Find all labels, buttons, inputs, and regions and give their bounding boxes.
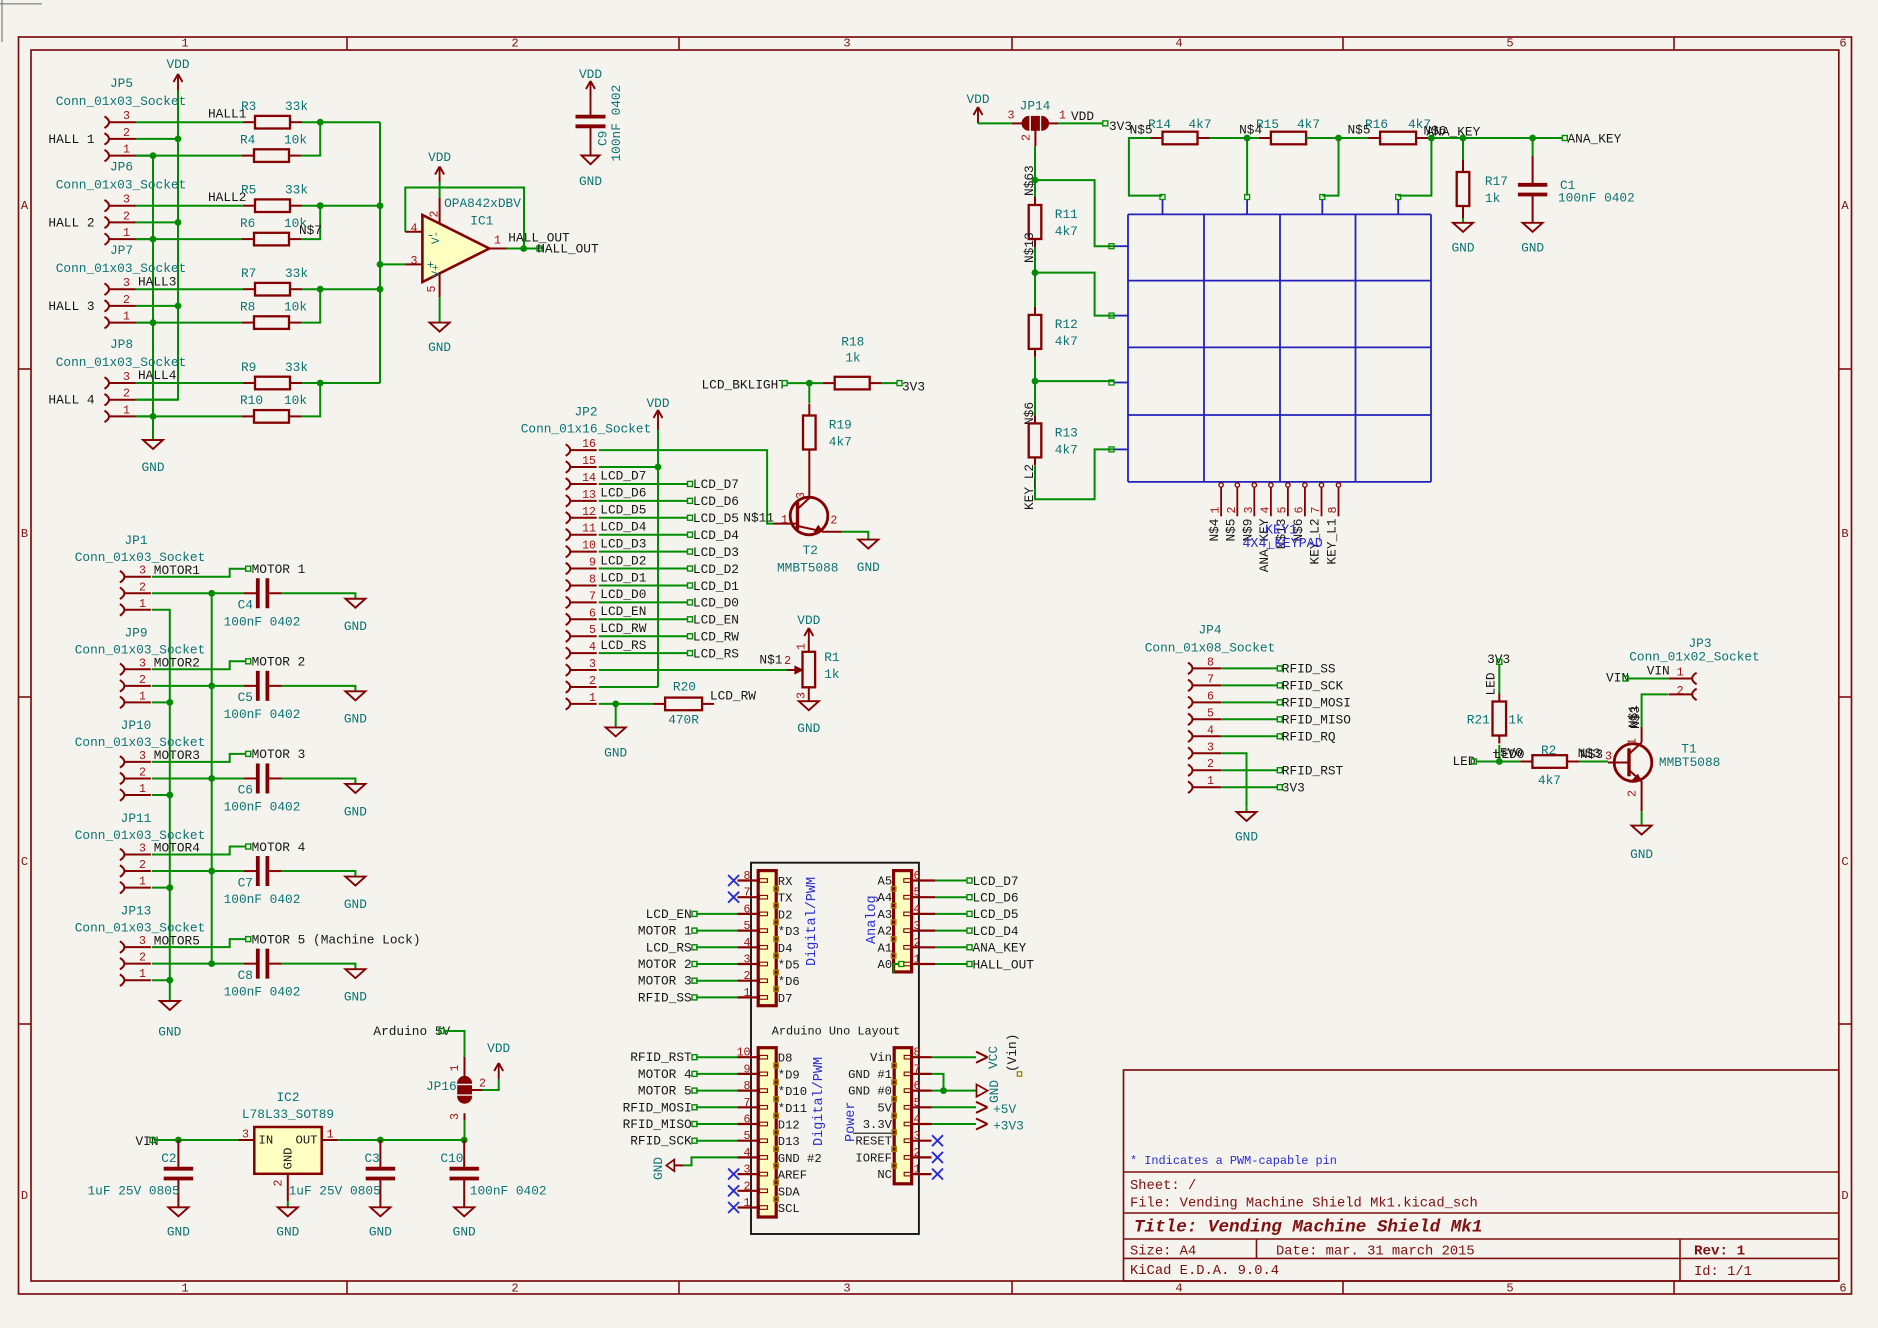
svg-text:10k: 10k: [284, 393, 307, 408]
svg-text:7: 7: [744, 1097, 751, 1110]
svg-text:*D5: *D5: [778, 959, 800, 973]
svg-text:GND: GND: [167, 1225, 190, 1240]
svg-text:100nF 0402: 100nF 0402: [224, 707, 301, 722]
svg-text:C7: C7: [238, 875, 253, 890]
svg-text:IC1: IC1: [470, 213, 493, 228]
svg-text:4k7: 4k7: [829, 435, 852, 450]
svg-text:1: 1: [1210, 507, 1223, 514]
svg-text:2: 2: [123, 127, 130, 140]
svg-text:MOTOR5: MOTOR5: [154, 933, 200, 948]
svg-text:A5: A5: [878, 875, 893, 889]
svg-text:R17: R17: [1485, 174, 1508, 189]
svg-text:1: 1: [449, 1065, 462, 1072]
svg-text:MOTOR3: MOTOR3: [154, 748, 200, 763]
svg-text:N$3: N$3: [1628, 706, 1643, 729]
svg-text:B: B: [1841, 527, 1848, 541]
svg-text:LED0: LED0: [1494, 747, 1525, 762]
svg-text:2: 2: [123, 388, 130, 401]
svg-text:9: 9: [744, 1063, 751, 1076]
svg-text:IOREF: IOREF: [855, 1151, 892, 1165]
svg-text:JP6: JP6: [110, 160, 133, 175]
svg-text:N$1: N$1: [759, 653, 782, 668]
svg-text:4: 4: [1259, 507, 1272, 514]
svg-text:10: 10: [582, 540, 596, 553]
svg-text:4: 4: [1175, 1282, 1182, 1296]
svg-text:1: 1: [123, 311, 130, 324]
svg-text:C: C: [21, 855, 28, 869]
svg-text:N$5: N$5: [1223, 519, 1238, 542]
svg-text:IC2: IC2: [276, 1090, 299, 1105]
svg-text:3: 3: [139, 750, 146, 763]
svg-text:B: B: [21, 527, 28, 541]
svg-text:N$5: N$5: [1348, 123, 1371, 138]
svg-text:RFID_MOSI: RFID_MOSI: [623, 1100, 692, 1115]
svg-text:1k: 1k: [1508, 713, 1524, 728]
svg-text:GND: GND: [369, 1225, 392, 1240]
svg-text:LCD_RW: LCD_RW: [710, 689, 756, 704]
svg-text:1: 1: [744, 987, 751, 1000]
svg-text:6: 6: [1293, 507, 1306, 514]
svg-text:Arduino Uno Layout: Arduino Uno Layout: [772, 1025, 900, 1039]
svg-text:LCD_RS: LCD_RS: [693, 646, 739, 661]
svg-text:1k: 1k: [1485, 191, 1501, 206]
svg-text:12: 12: [582, 506, 596, 519]
svg-text:VDD: VDD: [966, 92, 989, 107]
svg-text:1: 1: [1677, 666, 1684, 679]
svg-text:-: -: [427, 228, 435, 243]
svg-text:LCD_D0: LCD_D0: [693, 596, 739, 611]
svg-text:2: 2: [429, 211, 442, 218]
svg-text:Digital/PWM: Digital/PWM: [805, 877, 820, 966]
svg-text:1: 1: [494, 235, 501, 248]
svg-text:LCD_EN: LCD_EN: [600, 604, 646, 619]
svg-text:GND #0: GND #0: [848, 1085, 892, 1099]
svg-text:LCD_RW: LCD_RW: [600, 621, 646, 636]
svg-text:5: 5: [1506, 1282, 1513, 1296]
svg-text:D4: D4: [778, 942, 793, 956]
svg-text:3: 3: [843, 1282, 850, 1296]
svg-text:D7: D7: [778, 992, 793, 1006]
svg-text:SDA: SDA: [778, 1185, 801, 1199]
svg-text:100nF 0402: 100nF 0402: [470, 1184, 547, 1199]
svg-text:RFID_RQ: RFID_RQ: [1282, 730, 1336, 745]
svg-text:3: 3: [843, 37, 850, 51]
svg-text:4k7: 4k7: [1189, 117, 1212, 132]
svg-text:LCD_D4: LCD_D4: [600, 520, 646, 535]
svg-text:2: 2: [139, 859, 146, 872]
svg-text:VDD: VDD: [646, 396, 669, 411]
svg-text:LCD_D7: LCD_D7: [600, 469, 646, 484]
svg-text:GND: GND: [1451, 240, 1474, 255]
svg-text:GND #1: GND #1: [848, 1068, 892, 1082]
svg-text:3: 3: [914, 1130, 921, 1143]
svg-text:4: 4: [411, 222, 418, 235]
svg-text:N$4: N$4: [1239, 123, 1262, 138]
svg-text:C: C: [1841, 855, 1848, 869]
svg-text:LCD_D2: LCD_D2: [600, 553, 646, 568]
svg-text:3.3V: 3.3V: [863, 1118, 893, 1132]
svg-text:MOTOR 1: MOTOR 1: [252, 562, 306, 577]
svg-text:*D10: *D10: [778, 1085, 807, 1099]
svg-text:2: 2: [1021, 134, 1034, 141]
svg-text:8: 8: [744, 1080, 751, 1093]
svg-text:JP11: JP11: [121, 811, 152, 826]
svg-text:4: 4: [589, 641, 596, 654]
svg-text:1: 1: [139, 690, 146, 703]
svg-text:Rev: 1: Rev: 1: [1694, 1244, 1745, 1260]
svg-text:GND: GND: [282, 1148, 296, 1170]
svg-text:C2: C2: [161, 1151, 176, 1166]
svg-text:LCD_D7: LCD_D7: [973, 874, 1019, 889]
svg-text:RFID_MISO: RFID_MISO: [1282, 713, 1351, 728]
svg-text:D: D: [1841, 1189, 1848, 1203]
svg-text:1k: 1k: [824, 667, 840, 682]
svg-text:N$5: N$5: [1130, 123, 1153, 138]
svg-text:*D6: *D6: [778, 975, 800, 989]
svg-text:C4: C4: [238, 597, 254, 612]
svg-text:VIN: VIN: [1647, 664, 1670, 679]
svg-text:VDD: VDD: [579, 67, 602, 82]
svg-text:ANA_KEY: ANA_KEY: [1427, 125, 1481, 140]
svg-text:7: 7: [589, 590, 596, 603]
svg-text:GND #2: GND #2: [778, 1152, 822, 1166]
svg-text:IN: IN: [259, 1134, 274, 1148]
svg-text:ANA_KEY: ANA_KEY: [973, 941, 1027, 956]
svg-text:5: 5: [744, 1130, 751, 1143]
svg-text:N$4: N$4: [1207, 518, 1222, 541]
svg-text:1: 1: [123, 404, 130, 417]
svg-text:Digital/PWM: Digital/PWM: [812, 1057, 827, 1146]
svg-text:AREF: AREF: [778, 1169, 807, 1183]
svg-text:3: 3: [1243, 507, 1256, 514]
svg-text:1: 1: [139, 968, 146, 981]
svg-text:Conn_01x03_Socket: Conn_01x03_Socket: [56, 94, 187, 109]
svg-text:GND: GND: [344, 989, 367, 1004]
svg-text:15: 15: [582, 455, 596, 468]
svg-text:GND: GND: [857, 560, 880, 575]
svg-text:8: 8: [589, 573, 596, 586]
svg-text:*D3: *D3: [778, 925, 800, 939]
svg-text:1: 1: [795, 643, 808, 650]
svg-text:6: 6: [744, 1114, 751, 1127]
svg-text:LCD_BKLIGHT: LCD_BKLIGHT: [702, 377, 787, 392]
svg-text:1: 1: [1207, 775, 1214, 788]
svg-text:4: 4: [914, 1114, 921, 1127]
svg-text:VDD: VDD: [1071, 109, 1094, 124]
svg-text:VDD: VDD: [487, 1041, 510, 1056]
svg-text:LCD_D2: LCD_D2: [693, 562, 739, 577]
svg-text:VDD: VDD: [428, 150, 451, 165]
svg-text:1: 1: [123, 144, 130, 157]
svg-text:6: 6: [589, 607, 596, 620]
svg-text:LCD_D0: LCD_D0: [600, 587, 646, 602]
svg-text:1: 1: [744, 1197, 751, 1210]
svg-text:1: 1: [781, 514, 788, 527]
svg-text:R19: R19: [829, 418, 852, 433]
svg-text:2: 2: [830, 514, 837, 527]
svg-text:JP2: JP2: [574, 405, 597, 420]
svg-text:3: 3: [1207, 741, 1214, 754]
svg-text:1: 1: [139, 598, 146, 611]
svg-text:2: 2: [1226, 507, 1239, 514]
svg-text:LCD_D4: LCD_D4: [693, 528, 739, 543]
svg-text:A: A: [1841, 199, 1849, 213]
svg-text:3V3: 3V3: [1109, 119, 1132, 134]
svg-text:3: 3: [411, 255, 418, 268]
svg-text:JP16: JP16: [426, 1079, 457, 1094]
svg-text:MOTOR 2: MOTOR 2: [638, 957, 692, 972]
svg-text:R6: R6: [240, 216, 255, 231]
svg-text:6: 6: [1839, 1282, 1846, 1296]
svg-text:3: 3: [139, 843, 146, 856]
svg-text:2: 2: [914, 1147, 921, 1160]
svg-text:3: 3: [139, 935, 146, 948]
svg-text:LCD_D6: LCD_D6: [973, 891, 1019, 906]
svg-text:2: 2: [744, 1180, 751, 1193]
svg-text:LCD_D5: LCD_D5: [973, 907, 1019, 922]
svg-text:1: 1: [139, 876, 146, 889]
svg-text:7: 7: [1207, 673, 1214, 686]
svg-text:L78L33_SOT89: L78L33_SOT89: [242, 1107, 334, 1122]
svg-text:3: 3: [242, 1128, 249, 1141]
svg-text:9: 9: [589, 557, 596, 570]
svg-text:GND: GND: [141, 460, 164, 475]
svg-text:VDD: VDD: [166, 57, 189, 72]
svg-text:3: 3: [123, 110, 130, 123]
svg-text:2: 2: [123, 294, 130, 307]
svg-text:11: 11: [582, 523, 596, 536]
svg-text:R21: R21: [1467, 713, 1490, 728]
svg-text:D2: D2: [778, 908, 793, 922]
svg-text:7: 7: [914, 1063, 921, 1076]
svg-text:6: 6: [914, 870, 921, 883]
svg-text:4: 4: [744, 937, 751, 950]
svg-text:6: 6: [1839, 37, 1846, 51]
svg-text:1: 1: [123, 227, 130, 240]
svg-text:LED: LED: [1453, 754, 1476, 769]
svg-text:2: 2: [1677, 685, 1684, 698]
svg-text:3: 3: [1008, 110, 1015, 123]
svg-text:2: 2: [914, 937, 921, 950]
svg-text:GND: GND: [797, 721, 820, 736]
svg-text:1: 1: [914, 954, 921, 967]
svg-text:GND: GND: [344, 804, 367, 819]
svg-text:(Vin): (Vin): [1005, 1034, 1020, 1072]
svg-text:1: 1: [914, 1164, 921, 1177]
svg-text:2: 2: [784, 655, 791, 668]
svg-text:R13: R13: [1055, 425, 1078, 440]
svg-text:LCD_D6: LCD_D6: [600, 486, 646, 501]
svg-text:C5: C5: [238, 690, 253, 705]
svg-text:6: 6: [1207, 690, 1214, 703]
svg-text:4k7: 4k7: [1055, 334, 1078, 349]
svg-text:C6: C6: [238, 783, 253, 798]
svg-text:GND: GND: [1235, 830, 1258, 845]
svg-text:8: 8: [1327, 507, 1340, 514]
svg-text:*D9: *D9: [778, 1068, 800, 1082]
svg-text:N$7: N$7: [299, 223, 322, 238]
svg-text:JP9: JP9: [124, 626, 147, 641]
svg-text:1uF 25V 0805: 1uF 25V 0805: [88, 1184, 180, 1199]
svg-text:100nF 0402: 100nF 0402: [1558, 191, 1635, 206]
svg-text:4: 4: [744, 1147, 751, 1160]
svg-text:JP8: JP8: [110, 337, 133, 352]
svg-text:LCD_D5: LCD_D5: [600, 503, 646, 518]
svg-text:GND: GND: [276, 1225, 299, 1240]
svg-text:6: 6: [914, 1080, 921, 1093]
svg-text:8: 8: [744, 870, 751, 883]
svg-text:VCC: VCC: [986, 1046, 1001, 1069]
svg-text:File: Vending Machine Shield M: File: Vending Machine Shield Mk1.kicad_s…: [1130, 1196, 1478, 1212]
svg-text:Title: Vending Machine Shield: Title: Vending Machine Shield Mk1: [1134, 1218, 1482, 1238]
svg-text:* Indicates a PWM-capable pin: * Indicates a PWM-capable pin: [1130, 1154, 1337, 1168]
svg-text:D12: D12: [778, 1119, 800, 1133]
svg-text:RFID_SS: RFID_SS: [638, 990, 692, 1005]
svg-text:LCD_RS: LCD_RS: [646, 940, 692, 955]
svg-text:3: 3: [449, 1113, 462, 1120]
svg-text:R5: R5: [241, 183, 256, 198]
svg-text:R3: R3: [241, 99, 256, 114]
svg-text:HALL_OUT: HALL_OUT: [973, 957, 1035, 972]
svg-text:100nF 0402: 100nF 0402: [224, 799, 301, 814]
svg-text:100nF 0402: 100nF 0402: [224, 985, 301, 1000]
svg-text:16: 16: [582, 438, 596, 451]
svg-text:GND: GND: [453, 1225, 476, 1240]
svg-text:KEY_L2: KEY_L2: [1022, 464, 1037, 510]
svg-text:R1: R1: [824, 650, 840, 665]
svg-text:RESET: RESET: [855, 1135, 892, 1149]
svg-text:MOTOR1: MOTOR1: [154, 563, 200, 578]
svg-text:6: 6: [744, 903, 751, 916]
svg-text:10k: 10k: [284, 132, 307, 147]
svg-text:KiCad E.D.A. 9.0.4: KiCad E.D.A. 9.0.4: [1130, 1263, 1279, 1279]
svg-text:N$13: N$13: [1022, 232, 1037, 263]
svg-text:5: 5: [426, 286, 439, 293]
svg-text:5: 5: [914, 887, 921, 900]
svg-text:100nF 0402: 100nF 0402: [224, 614, 301, 629]
svg-text:10k: 10k: [284, 299, 307, 314]
svg-text:3: 3: [139, 657, 146, 670]
svg-text:33k: 33k: [285, 266, 308, 281]
svg-text:Conn_01x16_Socket: Conn_01x16_Socket: [521, 422, 652, 437]
svg-text:MOTOR 3: MOTOR 3: [638, 974, 692, 989]
svg-text:MMBT5088: MMBT5088: [777, 561, 838, 576]
svg-text:ANA_KEY: ANA_KEY: [1568, 131, 1622, 146]
svg-text:4X4_KEYPAD: 4X4_KEYPAD: [1242, 537, 1322, 552]
svg-text:33k: 33k: [285, 360, 308, 375]
svg-text:D13: D13: [778, 1135, 800, 1149]
svg-text:R2: R2: [1541, 743, 1556, 758]
svg-text:N$63: N$63: [1022, 165, 1037, 196]
svg-text:HALL3: HALL3: [138, 274, 176, 289]
svg-text:3V3: 3V3: [1282, 780, 1305, 795]
svg-text:LCD_EN: LCD_EN: [646, 907, 692, 922]
svg-text:LCD_D3: LCD_D3: [693, 545, 739, 560]
svg-text:R20: R20: [673, 679, 696, 694]
svg-text:GND: GND: [1630, 847, 1653, 862]
svg-text:RFID_SS: RFID_SS: [1282, 662, 1336, 677]
svg-text:KEY_L1: KEY_L1: [1325, 518, 1340, 564]
svg-text:4k7: 4k7: [1297, 117, 1320, 132]
svg-text:MOTOR 1: MOTOR 1: [638, 924, 692, 939]
svg-text:4: 4: [1175, 37, 1182, 51]
svg-text:8: 8: [1207, 656, 1214, 669]
svg-text:5: 5: [744, 920, 751, 933]
svg-text:LCD_D3: LCD_D3: [600, 536, 646, 551]
svg-text:LCD_RS: LCD_RS: [600, 638, 646, 653]
svg-text:5: 5: [1276, 507, 1289, 514]
svg-text:GND: GND: [428, 340, 451, 355]
svg-text:MMBT5088: MMBT5088: [1659, 755, 1720, 770]
svg-text:T2: T2: [803, 543, 818, 558]
svg-text:4k7: 4k7: [1538, 773, 1561, 788]
svg-text:100nF 0402: 100nF 0402: [224, 892, 301, 907]
svg-text:7: 7: [744, 887, 751, 900]
svg-text:MOTOR2: MOTOR2: [154, 656, 200, 671]
svg-text:GND: GND: [344, 897, 367, 912]
svg-text:LCD_D7: LCD_D7: [693, 477, 739, 492]
svg-text:7: 7: [1310, 507, 1323, 514]
svg-text:HALL 4: HALL 4: [48, 393, 94, 408]
svg-text:C8: C8: [238, 968, 253, 983]
svg-text:Conn_01x08_Socket: Conn_01x08_Socket: [1145, 641, 1276, 656]
svg-text:2: 2: [589, 675, 596, 688]
svg-text:2: 2: [139, 766, 146, 779]
svg-text:NC: NC: [877, 1168, 892, 1182]
svg-text:33k: 33k: [285, 183, 308, 198]
svg-text:R11: R11: [1055, 207, 1078, 222]
svg-text:MOTOR 4: MOTOR 4: [252, 840, 306, 855]
svg-text:5: 5: [914, 1097, 921, 1110]
svg-text:LED: LED: [1484, 672, 1499, 695]
svg-text:MOTOR 5 (Machine Lock): MOTOR 5 (Machine Lock): [252, 932, 421, 947]
svg-text:LCD_EN: LCD_EN: [693, 613, 739, 628]
svg-text:VDD: VDD: [797, 613, 820, 628]
svg-text:4k7: 4k7: [1055, 224, 1078, 239]
svg-text:Date: mar. 31 march 2015: Date: mar. 31 march 2015: [1276, 1244, 1475, 1260]
svg-text:GND: GND: [651, 1157, 666, 1180]
svg-text:MOTOR 3: MOTOR 3: [252, 747, 306, 762]
svg-text:4k7: 4k7: [1055, 442, 1078, 457]
svg-text:3: 3: [123, 371, 130, 384]
svg-text:MOTOR 2: MOTOR 2: [252, 655, 306, 670]
svg-text:GND: GND: [604, 746, 627, 761]
svg-text:5: 5: [1207, 707, 1214, 720]
svg-text:*D11: *D11: [778, 1102, 807, 1116]
svg-text:2: 2: [139, 952, 146, 965]
svg-text:5: 5: [589, 624, 596, 637]
svg-text:Conn_01x03_Socket: Conn_01x03_Socket: [56, 178, 187, 193]
svg-text:+5V: +5V: [993, 1102, 1016, 1117]
svg-text:HALL_OUT: HALL_OUT: [537, 241, 599, 256]
svg-text:Size: A4: Size: A4: [1130, 1244, 1196, 1260]
svg-text:1: 1: [589, 692, 596, 705]
svg-text:3: 3: [795, 692, 808, 699]
svg-text:SCL: SCL: [778, 1202, 800, 1216]
svg-text:LCD_RW: LCD_RW: [693, 630, 739, 645]
svg-text:A0: A0: [878, 958, 893, 972]
svg-text:GND: GND: [344, 712, 367, 727]
svg-text:Vin: Vin: [870, 1051, 892, 1065]
svg-text:Power: Power: [844, 1101, 859, 1142]
svg-text:3: 3: [123, 277, 130, 290]
svg-text:RFID_MOSI: RFID_MOSI: [1282, 696, 1351, 711]
svg-text:Sheet: /: Sheet: /: [1130, 1178, 1196, 1194]
svg-text:GND: GND: [344, 619, 367, 634]
svg-text:R18: R18: [841, 335, 864, 350]
svg-text:Id: 1/1: Id: 1/1: [1694, 1264, 1752, 1280]
svg-text:2: 2: [139, 581, 146, 594]
